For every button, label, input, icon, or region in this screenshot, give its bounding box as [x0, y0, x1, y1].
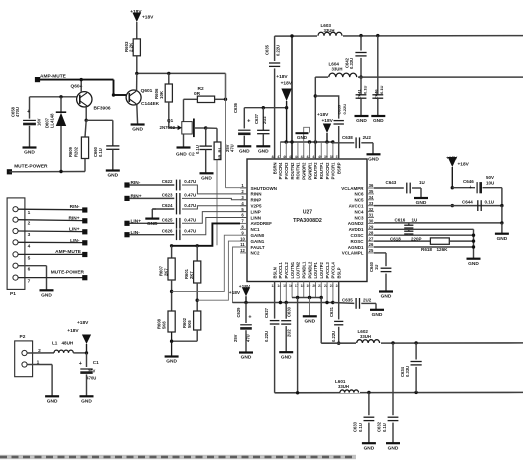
wire C622 to pin: [182, 185, 247, 194]
ground C2: [200, 172, 214, 174]
svg-text:0.1U: 0.1U: [195, 145, 200, 154]
ground C658: [23, 146, 37, 148]
svg-text:GND: GND: [368, 157, 379, 163]
svg-text:AMP-MUTE: AMP-MUTE: [55, 249, 82, 255]
P1 pin5 wire AMP-MUTE: [18, 253, 84, 255]
P1 pin4 wire LIN-: [18, 241, 84, 243]
svg-text:+18V: +18V: [77, 320, 89, 326]
svg-text:GAIN1: GAIN1: [251, 239, 265, 244]
svg-text:1: 1: [28, 210, 31, 216]
ground C641: [355, 115, 369, 117]
svg-text:LL4148: LL4148: [50, 113, 55, 128]
wire Q1 drain stub: [194, 127, 206, 129]
ground C636: [237, 145, 251, 147]
svg-text:2U2: 2U2: [262, 116, 267, 124]
wire AGND2 net: [374, 222, 502, 224]
svg-text:C622: C622: [162, 179, 173, 184]
ground oscillator: [467, 258, 481, 260]
transistor Q601 C144EK: [126, 90, 141, 105]
wire ROUT line 1: [275, 35, 523, 38]
svg-text:+18V: +18V: [317, 112, 329, 118]
svg-text:33UH: 33UH: [360, 334, 371, 339]
svg-text:2.2K: 2.2K: [129, 42, 134, 52]
svg-text:VCLAMPL: VCLAMPL: [342, 251, 364, 256]
resistor R601 2K7: [196, 246, 198, 261]
ground Q601: [131, 123, 145, 125]
svg-text:BF3906: BF3906: [94, 105, 111, 111]
svg-text:NC1: NC1: [251, 227, 260, 232]
svg-text:GND: GND: [372, 312, 383, 318]
svg-text:29: 29: [369, 225, 374, 230]
capacitor C1 470U 25V: [86, 353, 88, 367]
wire R606 to Q1 gate: [168, 102, 170, 128]
ground C635b: [370, 309, 384, 311]
svg-text:P1: P1: [10, 291, 16, 297]
node line1-C646: [376, 34, 379, 37]
svg-text:27: 27: [369, 236, 374, 241]
svg-text:SHUTDOWN: SHUTDOWN: [251, 186, 278, 191]
wire AVDD1 net: [374, 228, 474, 230]
svg-text:ROUTN2: ROUTN2: [290, 162, 295, 180]
power flag +18V (R603 feed): [132, 13, 141, 23]
transistor Q604 BF3906: [77, 92, 92, 107]
capacitor C641 0.1U: [360, 77, 362, 94]
svg-text:PVCCR4: PVCCR4: [278, 162, 283, 179]
P1 pin2 wire RIN+: [18, 219, 84, 222]
wire R603 bottom: [136, 56, 138, 74]
svg-text:0.1U: 0.1U: [362, 85, 367, 94]
U27 right pin stubs: [367, 187, 374, 189]
resistor R607 2K7: [171, 246, 173, 258]
svg-text:+18V: +18V: [276, 74, 288, 80]
wire AMP-MUTE drop to Q601 base: [113, 80, 115, 95]
wire MUTE-POWER line: [9, 171, 85, 173]
svg-text:GND: GND: [81, 399, 92, 405]
capacitor C637 2U2: [262, 106, 265, 109]
ground P2: [45, 395, 59, 397]
svg-text:0.47U: 0.47U: [184, 229, 196, 234]
svg-text:PVCCL2: PVCCL2: [284, 261, 289, 278]
svg-text:NC6: NC6: [354, 192, 363, 197]
resistor R603 2.2K: [133, 39, 140, 56]
svg-text:GND: GND: [356, 118, 367, 124]
svg-text:+18V: +18V: [130, 9, 142, 15]
ground C624 input: [152, 208, 156, 210]
node D607 top: [59, 95, 62, 98]
wire ROUTN riser: [291, 36, 293, 159]
svg-text:1U: 1U: [374, 265, 379, 270]
capacitor C638 2U2: [333, 142, 355, 144]
svg-text:LOUTN1: LOUTN1: [290, 261, 295, 278]
svg-text:ROUTP1: ROUTP1: [319, 162, 324, 179]
svg-text:C643: C643: [386, 180, 397, 185]
capacitor C631 0.22U bootstrap BSLP: [338, 282, 340, 320]
svg-text:LOUTN2: LOUTN2: [296, 261, 301, 278]
wire Q604 emitter down: [85, 106, 87, 120]
svg-text:33UH: 33UH: [332, 67, 343, 72]
ground C638: [367, 153, 381, 155]
wire Q601 collector: [136, 73, 138, 90]
ground Q1 source: [177, 146, 191, 148]
svg-text:50V: 50V: [486, 175, 494, 180]
svg-text:Q1: Q1: [167, 118, 174, 123]
svg-text:0.22U: 0.22U: [275, 45, 280, 56]
svg-text:R202: R202: [73, 146, 78, 157]
svg-text:+18V: +18V: [142, 14, 154, 20]
svg-text:C638: C638: [342, 135, 353, 140]
svg-text:LINP: LINP: [251, 209, 261, 214]
inductor L604 33UH: [328, 73, 358, 80]
node line3-C634: [414, 341, 417, 344]
P1 pin7 wire MUTE-POWER: [18, 277, 84, 279]
svg-text:C630: C630: [287, 306, 292, 317]
svg-text:30: 30: [369, 219, 374, 224]
ground C629: [239, 351, 253, 353]
svg-text:C627: C627: [264, 307, 269, 318]
ground C630: [279, 351, 293, 353]
svg-text:GND: GND: [201, 176, 212, 182]
wire LOUT line 3: [321, 342, 523, 344]
svg-text:2K7: 2K7: [189, 271, 194, 279]
svg-text:25: 25: [369, 248, 374, 253]
P2 pin2 wire to L1: [27, 352, 54, 354]
node AVCC/C646 junction: [451, 186, 454, 189]
svg-text:PVCCR1: PVCCR1: [331, 162, 336, 179]
svg-text:GND: GND: [364, 445, 375, 451]
P1 pin3 wire LIN+: [18, 230, 84, 233]
svg-text:0.22U: 0.22U: [342, 104, 347, 115]
svg-text:PGNDL1: PGNDL1: [301, 261, 306, 278]
wire R1 bottom to AVDDREF line: [216, 160, 218, 246]
wire R601-R602 junction: [196, 283, 198, 311]
U27 left pin stubs: [240, 187, 247, 189]
wire R609 bottom to MUTE-POWER: [84, 159, 86, 172]
resistor R602 5K6: [194, 311, 201, 330]
svg-text:ROUTP2: ROUTP2: [313, 162, 318, 179]
svg-text:2K7: 2K7: [163, 268, 168, 276]
svg-text:1U: 1U: [419, 180, 425, 185]
svg-text:BSRP: BSRP: [336, 162, 341, 174]
svg-text:32: 32: [369, 207, 374, 212]
svg-text:0.1U: 0.1U: [382, 423, 387, 432]
svg-text:0.47U: 0.47U: [184, 217, 196, 222]
wire R607-R608 junction: [171, 280, 173, 311]
svg-text:3: 3: [28, 232, 31, 238]
svg-text:C644: C644: [462, 199, 473, 204]
svg-text:GND: GND: [166, 359, 177, 365]
svg-text:C631: C631: [329, 306, 334, 317]
svg-text:26: 26: [369, 242, 374, 247]
svg-text:C626: C626: [162, 229, 173, 234]
svg-text:470U: 470U: [86, 376, 96, 381]
wire Q604 base: [30, 96, 77, 98]
svg-text:P2: P2: [20, 334, 26, 340]
wire Q604 collector to AMP-MUTE line: [80, 80, 82, 93]
svg-text:AVDD1: AVDD1: [349, 227, 364, 232]
wire LOUT bus A: [292, 297, 321, 299]
power flag +18V (PVCCR feed): [281, 89, 291, 102]
svg-text:AVDDREF: AVDDREF: [251, 221, 273, 226]
wire ROUT line 2: [315, 76, 523, 78]
svg-text:10: 10: [240, 236, 245, 241]
svg-text:C629: C629: [236, 307, 241, 318]
node line3-C632: [391, 341, 394, 344]
wire D607 to MUTE-POWER line: [60, 126, 62, 172]
wire COSC net: [374, 234, 474, 236]
svg-text:GND: GND: [497, 236, 508, 242]
inductor L602 33UH: [356, 339, 381, 345]
svg-text:25V: 25V: [88, 368, 96, 373]
svg-text:GND: GND: [41, 293, 52, 299]
svg-text:BSRN: BSRN: [272, 162, 277, 174]
svg-text:25V: 25V: [233, 334, 238, 342]
capacitor C630 2U2: [285, 303, 287, 319]
svg-text:FAULT: FAULT: [251, 245, 265, 250]
capacitor C642 0.33U: [360, 36, 362, 51]
ground AGND2: [495, 233, 509, 235]
svg-text:R1: R1: [218, 146, 223, 152]
svg-text:7: 7: [28, 279, 31, 285]
svg-text:L1: L1: [52, 341, 58, 346]
svg-text:35: 35: [369, 189, 374, 194]
svg-text:GND: GND: [241, 355, 252, 361]
svg-text:LIN-: LIN-: [70, 238, 80, 244]
U27 top pin stubs: [274, 142, 276, 159]
svg-text:+18V: +18V: [458, 162, 470, 168]
svg-text:1U: 1U: [412, 218, 418, 223]
diode D607 LL4148: [60, 97, 62, 112]
svg-text:C624: C624: [162, 203, 173, 208]
ground C1: [80, 395, 94, 397]
svg-text:11: 11: [240, 242, 245, 247]
node +18V tap C-network: [285, 106, 288, 109]
svg-text:RIN+: RIN+: [68, 215, 79, 221]
svg-text:NC4: NC4: [354, 209, 363, 214]
svg-text:2: 2: [28, 221, 31, 227]
svg-text:GND: GND: [381, 294, 392, 300]
svg-text:U27: U27: [303, 210, 312, 216]
svg-text:5K6: 5K6: [161, 321, 166, 329]
svg-text:0.1U: 0.1U: [358, 423, 363, 432]
capacitor C639 0.22U bootstrap BSRP: [315, 96, 338, 119]
svg-text:V2P5: V2P5: [251, 204, 263, 209]
op-amp U27 TPA3008D2 body: [247, 159, 367, 282]
capacitor C635b 2U2: [333, 302, 355, 305]
ground PGNDR bracket: [304, 127, 310, 142]
capacitor C632 0.1U: [392, 343, 394, 415]
svg-text:0.22U: 0.22U: [264, 331, 269, 342]
node line4-C633: [367, 391, 370, 394]
svg-text:+18V: +18V: [229, 290, 241, 296]
svg-text:47U: 47U: [229, 144, 234, 152]
svg-text:RIN-: RIN-: [70, 204, 80, 210]
svg-text:+18V: +18V: [281, 80, 293, 86]
svg-text:AGND1: AGND1: [348, 245, 364, 250]
wire FAULT pin11: [233, 247, 247, 303]
power flag +18V (PVCCR right feed): [323, 124, 331, 134]
svg-text:33: 33: [369, 201, 374, 206]
wire L1 to C1 node: [73, 352, 86, 354]
svg-text:GND: GND: [176, 152, 187, 158]
wire GAIN0 to pin9: [172, 235, 240, 291]
svg-text:AGND2: AGND2: [348, 221, 364, 226]
wire Q601 emitter to GND: [136, 105, 139, 125]
svg-text:GND: GND: [281, 354, 292, 360]
svg-text:10K: 10K: [159, 90, 164, 99]
svg-text:TPA3008D2: TPA3008D2: [293, 218, 322, 224]
wire AVCC1 net: [374, 205, 502, 207]
ground C637: [256, 145, 270, 147]
ground C660: [106, 169, 120, 171]
P1 pin1 wire RIN-: [18, 208, 84, 211]
wire C623 to pin: [182, 198, 247, 199]
node R2 right junction: [224, 98, 227, 101]
svg-text:6: 6: [28, 267, 31, 273]
power flag +18V (PVCCL feed): [242, 287, 250, 296]
node R606 top junction: [167, 72, 170, 75]
svg-text:+18V: +18V: [322, 118, 334, 124]
svg-text:34: 34: [369, 195, 374, 200]
wire PVCCR bus: [280, 141, 333, 143]
resistor R609 R202: [85, 120, 86, 137]
svg-text:10U: 10U: [486, 180, 494, 185]
svg-text:LINN: LINN: [251, 215, 262, 220]
svg-text:C636: C636: [233, 102, 238, 113]
wire R2 left to Q1 drain: [184, 98, 198, 100]
resistor R606 10K: [168, 73, 170, 84]
wire divider bottoms to GND: [171, 332, 173, 341]
wire LOUTN riser to line4: [297, 298, 299, 393]
svg-text:PVCCR3: PVCCR3: [284, 162, 289, 179]
svg-text:5K6: 5K6: [187, 320, 192, 328]
svg-text:PVCCR2: PVCCR2: [325, 162, 330, 179]
capacitor C646 0.1U: [377, 36, 379, 95]
svg-text:0.1U: 0.1U: [98, 148, 103, 157]
svg-text:2U2: 2U2: [287, 329, 292, 337]
svg-text:0.1U: 0.1U: [379, 85, 384, 94]
svg-text:C637: C637: [254, 113, 259, 124]
svg-text:C646: C646: [463, 179, 474, 184]
node R603/collector junction: [135, 72, 138, 75]
ground C640: [379, 290, 393, 292]
svg-text:GND: GND: [239, 149, 250, 155]
svg-text:RINP: RINP: [251, 198, 262, 203]
svg-text:GND: GND: [132, 127, 143, 133]
svg-text:PVCCL4: PVCCL4: [331, 261, 336, 278]
wire R2 rail to SHUTDOWN pin1: [225, 73, 227, 187]
wire LOUTP riser to line3: [320, 298, 322, 344]
U27 bottom pin stubs: [279, 282, 281, 303]
node R609/C660 tap: [85, 119, 88, 122]
svg-text:C616: C616: [395, 218, 406, 223]
wire C625 to pin: [182, 212, 247, 224]
svg-text:VCLAMPR: VCLAMPR: [341, 186, 364, 191]
svg-text:GND: GND: [373, 118, 384, 124]
node R607 top: [170, 244, 173, 247]
svg-text:28: 28: [369, 230, 374, 235]
svg-text:BSLN: BSLN: [272, 267, 277, 278]
svg-text:MUTE-POWER: MUTE-POWER: [51, 269, 85, 275]
node GAIN0 tap: [170, 290, 173, 293]
svg-text:GND: GND: [304, 319, 315, 325]
svg-text:PVCCL3: PVCCL3: [325, 261, 330, 278]
wire C626 to pin: [182, 218, 247, 235]
connector P1: [7, 198, 25, 290]
svg-text:NC3: NC3: [354, 215, 363, 220]
inductor L601 33UH: [340, 388, 360, 393]
capacitor C2 0.1U: [205, 128, 207, 146]
svg-text:C641: C641: [357, 89, 362, 99]
svg-text:16V: 16V: [37, 118, 42, 126]
connector P2: [15, 341, 33, 377]
capacitor C660 0.1U: [86, 119, 113, 121]
svg-text:PGNDL2: PGNDL2: [307, 261, 312, 278]
svg-text:+18V: +18V: [239, 284, 251, 290]
wire C624 left: [152, 208, 174, 210]
ground C646: [371, 115, 385, 117]
P1 pin6 wire to GND: [18, 265, 46, 267]
power flag +18V (AVCC feed): [448, 157, 457, 167]
svg-text:RINN: RINN: [251, 192, 262, 197]
svg-text:NC2: NC2: [251, 251, 260, 256]
svg-text:31: 31: [369, 213, 374, 218]
svg-text:36: 36: [369, 183, 374, 188]
svg-text:+18V: +18V: [67, 328, 79, 334]
svg-text:GND: GND: [258, 149, 269, 155]
svg-text:BSLP: BSLP: [336, 267, 341, 278]
svg-text:0.33U: 0.33U: [349, 58, 354, 69]
svg-text:4: 4: [28, 243, 31, 249]
svg-text:PGNDR2: PGNDR2: [301, 162, 306, 180]
svg-text:0.47U: 0.47U: [184, 192, 196, 197]
ground C633: [362, 442, 376, 444]
capacitor C636 47U 25V: [243, 108, 245, 129]
svg-text:PGNDR1: PGNDR1: [307, 162, 312, 180]
svg-text:Q601: Q601: [141, 88, 153, 94]
svg-text:GND: GND: [47, 399, 58, 405]
node line1-C642: [359, 34, 362, 37]
svg-text:+: +: [469, 185, 472, 191]
svg-text:GAIN0: GAIN0: [251, 233, 265, 238]
capacitor C640 1U VCLAMPL: [374, 252, 386, 254]
svg-text:5: 5: [28, 255, 31, 261]
wire PVCCL bus B: [233, 302, 333, 304]
svg-text:+18V: +18V: [446, 156, 458, 162]
svg-text:C144EK: C144EK: [141, 101, 160, 107]
svg-text:ROSC: ROSC: [350, 239, 364, 244]
svg-text:C625: C625: [162, 217, 173, 222]
wire C624 to pin: [182, 206, 247, 209]
wire Q601 base: [114, 94, 127, 96]
svg-text:33UH: 33UH: [324, 28, 335, 33]
svg-text:C635: C635: [264, 44, 269, 55]
capacitor C629 47U 25V: [245, 303, 247, 324]
svg-text:0.47U: 0.47U: [184, 179, 196, 184]
svg-text:GND: GND: [107, 173, 118, 179]
svg-text:LIN+: LIN+: [69, 227, 80, 233]
wire AMP-MUTE line: [38, 79, 114, 81]
svg-text:COSC: COSC: [350, 233, 364, 238]
wire VCLAMPR net: [374, 187, 404, 189]
node base drop: [112, 93, 115, 96]
ground PGNDL stub: [309, 298, 311, 316]
wire Q1 source to GND: [183, 134, 185, 147]
capacitor C634 0.33U: [415, 343, 417, 360]
ground dividers: [165, 355, 179, 357]
capacitor C635 0.22U bootstrap BSRN: [274, 36, 276, 61]
svg-text:C646: C646: [373, 89, 378, 99]
svg-text:0.33U: 0.33U: [405, 366, 410, 377]
